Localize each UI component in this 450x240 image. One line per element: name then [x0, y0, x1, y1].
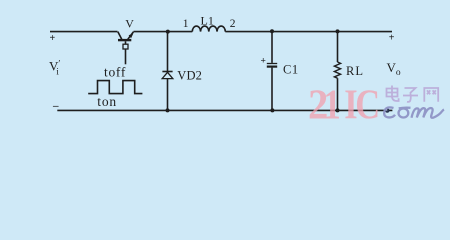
svg-text:toff: toff: [104, 64, 126, 79]
svg-text:1: 1: [183, 18, 189, 30]
svg-text:VD2: VD2: [177, 69, 202, 83]
inductor L1: [192, 26, 225, 32]
watermark hanzi wang: [424, 88, 438, 102]
svg-text:V′i: V′i: [49, 59, 60, 77]
watermark com script: [384, 107, 444, 117]
diode VD2: [162, 32, 173, 111]
svg-text:ton: ton: [97, 94, 117, 109]
node junction dot capacitor bottom: [270, 108, 274, 112]
node junction dot diode top: [166, 30, 170, 34]
wire bottom rail: [57, 109, 392, 111]
wire top rail left segment: [50, 31, 118, 33]
svg-text:Vo: Vo: [387, 60, 401, 78]
svg-text:C: C: [355, 82, 380, 128]
svg-text:+: +: [50, 33, 56, 44]
node junction dot diode bottom: [166, 108, 170, 112]
capacitor C1: [267, 32, 277, 111]
svg-text:–: –: [52, 100, 59, 112]
svg-text:+: +: [389, 33, 395, 44]
svg-text:C1: C1: [283, 63, 299, 77]
svg-text:V: V: [125, 17, 134, 31]
watermark 21IC logo: [308, 81, 380, 128]
waveform pulse train: [88, 81, 142, 94]
transistor V: [118, 32, 134, 65]
watermark dot of .com: [385, 108, 389, 112]
svg-text:RL: RL: [346, 64, 364, 78]
svg-text:L1: L1: [201, 14, 215, 28]
node junction dot RL bottom: [336, 108, 340, 112]
wire top rail right segment: [225, 31, 392, 33]
svg-text:+: +: [261, 57, 266, 67]
node junction dot RL top: [336, 29, 340, 33]
node junction dot capacitor top: [270, 29, 274, 33]
watermark hanzi dian: [387, 86, 399, 102]
resistor RL: [334, 32, 340, 111]
watermark hanzi zi: [403, 88, 418, 102]
svg-text:2: 2: [230, 18, 236, 30]
svg-text:1: 1: [324, 82, 341, 128]
wire top rail middle segment: [134, 31, 193, 33]
